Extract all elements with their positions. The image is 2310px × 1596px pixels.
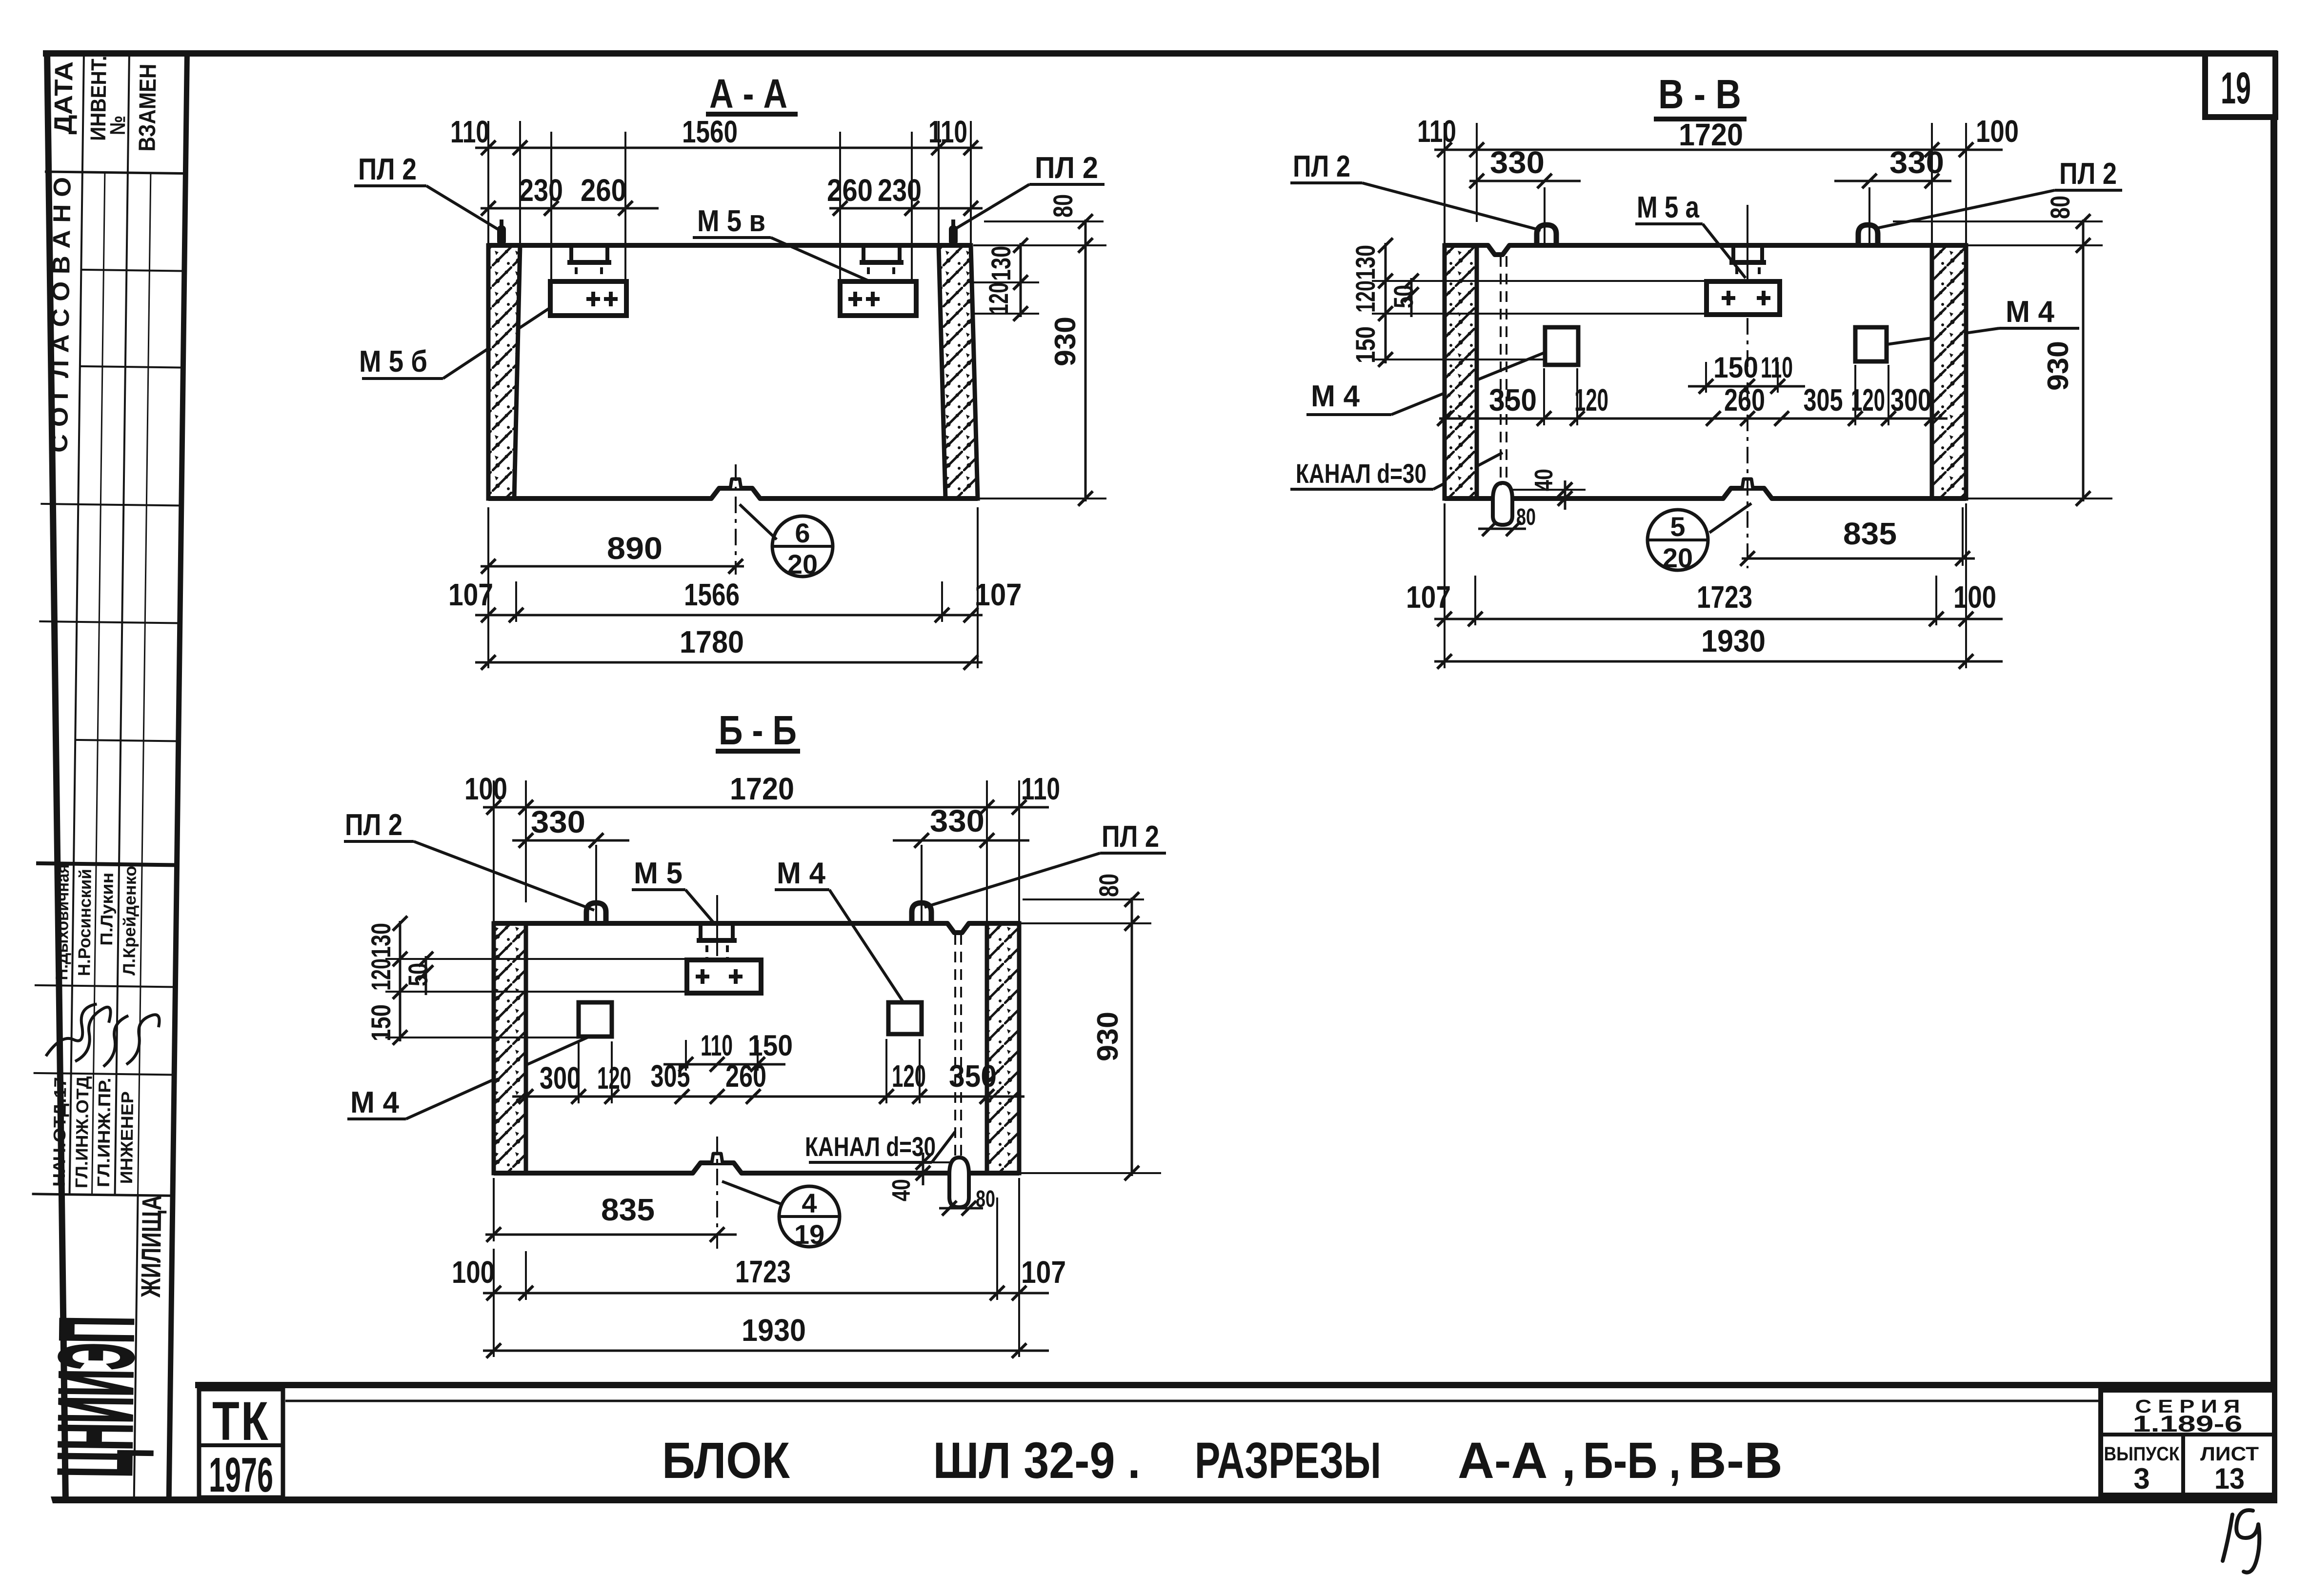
V-V block bottom edge with keyway notch <box>1445 488 1966 499</box>
B-B leader PL2 left <box>414 841 594 910</box>
svg-text:В - В: В - В <box>1658 71 1741 117</box>
B-B keyway stub <box>712 1154 723 1163</box>
svg-text:КАНАЛ d=30: КАНАЛ d=30 <box>1296 458 1426 489</box>
B-B detail callout circle 4/19 <box>779 1186 840 1247</box>
B-B leader M4 top <box>829 890 903 1001</box>
title block SERIYA cell <box>2101 1390 2274 1495</box>
V-V leader M4 right <box>1887 328 1999 344</box>
V-V leader KANAL <box>1433 453 1503 489</box>
left strip right border <box>166 53 190 1501</box>
title strip top line <box>195 1382 2270 1388</box>
svg-text:3: 3 <box>2133 1462 2149 1495</box>
svg-text:М 4: М 4 <box>777 857 825 890</box>
handwritten sheet number 19 <box>2223 1515 2232 1561</box>
svg-text:40: 40 <box>887 1179 916 1201</box>
svg-text:С О Г Л А С О В А Н О: С О Г Л А С О В А Н О <box>45 177 76 453</box>
svg-text:М 5: М 5 <box>634 857 683 890</box>
svg-text:110: 110 <box>1761 351 1793 384</box>
sheet frame top border <box>43 50 2277 57</box>
B-B dim 80 bottom <box>939 1207 983 1210</box>
A-A block bottom edge with keyway notch <box>488 488 978 499</box>
A-A block top edge <box>488 243 971 248</box>
B-B left level lines <box>385 958 687 960</box>
B-B anchor bracket M5 <box>699 925 703 940</box>
B-B loop ext lines <box>595 845 597 922</box>
section V-V title underline <box>1654 117 1747 121</box>
svg-text:М 4: М 4 <box>2006 295 2054 329</box>
svg-text:80: 80 <box>976 1186 995 1212</box>
svg-text:ПЛ 2: ПЛ 2 <box>358 153 417 186</box>
V-V dim 50 <box>1410 278 1413 317</box>
B-B dim 835 <box>493 1178 495 1241</box>
V-V dim row1 extension lines <box>1444 123 1446 245</box>
svg-text:1566: 1566 <box>684 577 740 612</box>
svg-text:1720: 1720 <box>730 771 794 806</box>
svg-text:Л.Крейденко: Л.Крейденко <box>120 866 140 976</box>
svg-text:110: 110 <box>1021 771 1060 806</box>
svg-text:305: 305 <box>651 1058 690 1094</box>
B-B right ext line 80 top <box>1023 898 1144 900</box>
V-V right concrete wall hatched <box>1932 245 1966 499</box>
svg-text:1720: 1720 <box>1679 117 1743 152</box>
V-V embedded square M4 right <box>1855 327 1887 361</box>
V-V dim row 107-1723-100 <box>1434 618 2003 620</box>
svg-text:5: 5 <box>1670 511 1685 542</box>
V-V vertical dim 80 930 <box>2082 219 2085 501</box>
B-B block top edge with channel notch <box>494 923 1019 933</box>
A-A bottom ext lines <box>487 507 489 668</box>
svg-text:ПЛ 2: ПЛ 2 <box>1035 151 1098 185</box>
svg-text:1976: 1976 <box>209 1448 273 1502</box>
svg-text:1.189-6: 1.189-6 <box>2133 1411 2243 1436</box>
A-A vertical dim 130 120 <box>1020 243 1022 317</box>
svg-text:130: 130 <box>1350 245 1381 280</box>
A-A detail callout circle 6/20 <box>772 516 833 577</box>
svg-text:930: 930 <box>1091 1012 1124 1061</box>
svg-text:1560: 1560 <box>682 114 738 149</box>
svg-text:20: 20 <box>787 549 818 579</box>
svg-text:50: 50 <box>402 963 433 986</box>
B-B dim 50 <box>425 956 427 995</box>
svg-text:А-А ,: А-А , <box>1458 1432 1576 1489</box>
svg-text:ГЛ.ИНЖ.ПР.: ГЛ.ИНЖ.ПР. <box>94 1077 115 1187</box>
svg-text:835: 835 <box>1843 516 1897 551</box>
svg-text:260: 260 <box>581 173 626 208</box>
svg-text:ШЛ 32-9 .: ШЛ 32-9 . <box>933 1432 1141 1489</box>
sheet frame right border <box>2270 50 2277 1503</box>
B-B channel dashed lines <box>954 934 956 1160</box>
svg-text:М 4: М 4 <box>350 1086 399 1119</box>
A-A right anchor bracket <box>862 247 865 262</box>
B-B bottom ext lines <box>525 1251 527 1300</box>
TK 1976 box <box>199 1389 283 1497</box>
A-A right ext line block top <box>973 244 1106 246</box>
svg-text:П.Лукин: П.Лукин <box>97 872 117 945</box>
svg-text:Б - Б: Б - Б <box>719 707 797 753</box>
V-V embedded plate M5a <box>1707 281 1780 315</box>
title strip inner thin line <box>285 1400 2101 1402</box>
A-A left concrete wall hatched <box>488 245 520 499</box>
page number box <box>2205 54 2275 117</box>
svg-text:1723: 1723 <box>735 1254 791 1289</box>
A-A keyway stub <box>730 479 741 488</box>
V-V leader PL2 right <box>1876 190 2055 228</box>
A-A dim row2 left line 230-260 <box>481 207 659 210</box>
svg-text:М 5 в: М 5 в <box>697 204 765 238</box>
V-V leader PL2 left <box>1362 183 1541 230</box>
B-B leader M4 left <box>406 1035 593 1119</box>
left strip column line 3 <box>92 173 105 1195</box>
svg-text:ДАТА: ДАТА <box>49 61 79 135</box>
svg-text:1723: 1723 <box>1697 579 1752 615</box>
B-B dim row A 110-150 <box>685 1040 687 1071</box>
svg-text:1930: 1930 <box>1701 623 1766 658</box>
svg-text:300: 300 <box>1890 382 1931 418</box>
V-V dim row1 line 110-1720-100 <box>1434 149 2003 151</box>
A-A right ext lines 130 120 <box>972 281 1039 283</box>
left strip line below signatures <box>34 1073 175 1075</box>
A-A dim row1 extension lines <box>487 121 489 245</box>
A-A dim row2 extension lines <box>550 132 552 279</box>
B-B leader M5 <box>685 890 714 923</box>
svg-text:120: 120 <box>1851 382 1885 418</box>
V-V keyway stub <box>1742 479 1753 488</box>
A-A vertical dim 80 930 <box>1085 219 1087 501</box>
A-A dim 890 line <box>481 565 744 568</box>
V-V block top edge with channel notch <box>1445 245 1966 255</box>
left strip row lines <box>81 270 184 271</box>
svg-text:ГЛ.ИНЖ.ОТД: ГЛ.ИНЖ.ОТД <box>72 1076 93 1189</box>
svg-text:50: 50 <box>1388 285 1419 308</box>
B-B embedded square M4 left <box>579 1002 612 1037</box>
A-A right ext line 80 top <box>984 220 1104 222</box>
B-B left concrete wall hatched <box>494 923 526 1173</box>
V-V bottom ext lines <box>1474 576 1476 625</box>
A-A leader PL2 right <box>956 184 1029 228</box>
svg-text:ИНЖЕНЕР: ИНЖЕНЕР <box>117 1091 137 1184</box>
svg-text:150: 150 <box>1350 326 1381 363</box>
svg-text:М 5 б: М 5 б <box>359 345 427 379</box>
V-V channel exit tab <box>1493 483 1512 525</box>
B-B left vertical dim 130 120 150 <box>399 921 402 1041</box>
svg-text:6: 6 <box>795 518 810 548</box>
B-B dim row1 extension lines <box>493 780 495 923</box>
A-A leader M5b <box>443 306 552 379</box>
V-V centre line upper <box>1747 205 1748 280</box>
V-V dim row A 150-110 <box>1705 362 1707 393</box>
svg-text:230: 230 <box>519 173 563 208</box>
V-V embedded square M4 left <box>1545 327 1578 365</box>
left strip logo column divider <box>134 1196 138 1498</box>
svg-text:ЖИЛИЩА: ЖИЛИЩА <box>135 1195 167 1298</box>
A-A right ext line bottom <box>973 498 1106 499</box>
A-A dim row 1780 <box>475 661 983 664</box>
svg-text:110: 110 <box>928 114 967 149</box>
svg-text:ТК: ТК <box>212 1391 270 1452</box>
sheet frame bottom border <box>51 1496 2277 1503</box>
left strip column line 1 <box>70 54 84 1195</box>
A-A left lifting loop PL2 <box>497 225 506 245</box>
svg-text:ПЛ 2: ПЛ 2 <box>2059 157 2117 191</box>
B-B leader to callout <box>722 1181 781 1204</box>
V-V leader to callout <box>1709 503 1751 533</box>
V-V leader M4 left <box>1391 350 1550 415</box>
svg-text:150: 150 <box>748 1029 793 1062</box>
svg-text:305: 305 <box>1804 382 1843 418</box>
A-A embedded plate M5v <box>840 281 916 316</box>
A-A right lifting loop PL2 <box>949 225 958 245</box>
left strip column line 2 <box>115 55 129 1195</box>
svg-text:100: 100 <box>464 771 507 806</box>
B-B dim 330 left <box>512 839 629 842</box>
B-B right concrete wall hatched <box>987 923 1019 1173</box>
svg-text:890: 890 <box>607 531 663 566</box>
left strip header row bottom line <box>45 172 186 174</box>
svg-text:40: 40 <box>1530 469 1558 491</box>
svg-text:19: 19 <box>794 1219 824 1250</box>
svg-text:80: 80 <box>1047 194 1078 218</box>
svg-text:120: 120 <box>1574 382 1608 418</box>
section A-A title underline <box>706 112 798 117</box>
B-B vertical dim 80 930 <box>1131 898 1133 1176</box>
svg-text:А - А: А - А <box>709 71 787 117</box>
svg-text:РАЗРЕЗЫ: РАЗРЕЗЫ <box>1195 1432 1381 1489</box>
A-A embedded plate M5b <box>550 281 626 316</box>
svg-text:1780: 1780 <box>680 624 744 659</box>
svg-text:230: 230 <box>878 173 922 208</box>
V-V right ext line block top <box>1968 244 2103 246</box>
svg-text:ПЛ 2: ПЛ 2 <box>345 808 402 842</box>
svg-text:В-В: В-В <box>1688 1432 1783 1489</box>
B-B embedded plate M5 <box>687 960 761 993</box>
svg-text:120: 120 <box>983 282 1014 315</box>
A-A dim row2 right line 260-230 <box>829 207 983 210</box>
svg-text:ВЫПУСК: ВЫПУСК <box>2104 1443 2180 1465</box>
V-V anchor pins <box>1735 267 1738 281</box>
svg-text:110: 110 <box>1417 114 1456 149</box>
svg-text:НАЧ.ОТД.17: НАЧ.ОТД.17 <box>50 1077 70 1187</box>
signature squiggles <box>46 1003 97 1057</box>
B-B centre line <box>716 1137 718 1249</box>
V-V dim 835 <box>1962 507 1964 566</box>
svg-text:100: 100 <box>452 1255 495 1290</box>
A-A left anchor bracket <box>569 247 573 262</box>
svg-text:№: № <box>106 116 130 136</box>
svg-text:107: 107 <box>975 577 1022 612</box>
V-V dim row B <box>1543 368 1545 425</box>
section B-B title underline <box>716 749 800 754</box>
A-A centre line <box>735 464 737 575</box>
V-V left concrete wall hatched <box>1445 245 1477 499</box>
svg-text:М 4: М 4 <box>1311 379 1360 413</box>
svg-text:80: 80 <box>1093 874 1124 897</box>
svg-text:835: 835 <box>601 1192 655 1227</box>
svg-text:120: 120 <box>365 958 396 991</box>
V-V leader M5a <box>1703 224 1746 278</box>
svg-text:150: 150 <box>365 1004 396 1041</box>
B-B anchor pins <box>705 945 708 958</box>
svg-text:350: 350 <box>1489 382 1537 418</box>
B-B centre line upper <box>716 895 718 956</box>
svg-text:330: 330 <box>531 804 585 839</box>
A-A right anchor pins <box>867 267 870 293</box>
svg-text:Н.Дыховичная: Н.Дыховичная <box>52 864 73 980</box>
A-A left anchor pins <box>575 267 578 293</box>
V-V dim 330 left <box>1469 180 1581 182</box>
A-A leader to callout <box>740 504 777 539</box>
left strip line below roles <box>32 1194 173 1196</box>
svg-text:БЛОК: БЛОК <box>662 1432 790 1489</box>
B-B channel exit tab <box>949 1157 969 1207</box>
A-A leader M5v <box>771 238 872 282</box>
svg-text:110: 110 <box>450 114 489 149</box>
svg-text:260: 260 <box>1724 382 1765 418</box>
svg-text:ПЛ 2: ПЛ 2 <box>1293 150 1350 183</box>
svg-text:107: 107 <box>448 577 493 612</box>
svg-text:80: 80 <box>1516 504 1536 530</box>
A-A dim row1 line 110-1560-110 <box>475 147 983 149</box>
V-V anchor bracket M5a <box>1731 247 1735 262</box>
A-A right concrete wall hatched <box>939 245 978 499</box>
V-V right lifting loop <box>1858 225 1878 245</box>
B-B dim row 100-1723-107 <box>483 1292 1049 1295</box>
B-B right ext line block top <box>1021 922 1151 924</box>
svg-text:Б-Б ,: Б-Б , <box>1583 1432 1681 1489</box>
svg-text:80: 80 <box>2045 196 2075 219</box>
svg-text:260: 260 <box>827 173 873 208</box>
V-V dim row 1930 <box>1434 660 2003 663</box>
B-B dim 40 <box>907 1161 951 1163</box>
B-B dim row B <box>578 1041 580 1103</box>
svg-text:330: 330 <box>1889 145 1944 180</box>
svg-text:4: 4 <box>802 1188 817 1218</box>
svg-text:130: 130 <box>985 246 1016 281</box>
svg-text:100: 100 <box>1976 114 2019 149</box>
V-V dim 330 right <box>1834 180 1951 182</box>
V-V loop ext lines <box>1544 187 1546 244</box>
svg-text:260: 260 <box>725 1058 766 1094</box>
sheet frame left border (slanted) <box>44 50 69 1503</box>
V-V right ext line 80 top <box>1893 220 2103 222</box>
V-V right ext line bottom <box>1968 498 2112 499</box>
A-A leader PL2 left <box>426 186 500 230</box>
svg-text:13: 13 <box>2214 1462 2245 1495</box>
svg-text:19: 19 <box>2221 63 2251 113</box>
svg-text:120: 120 <box>1350 280 1381 313</box>
svg-text:330: 330 <box>930 803 984 838</box>
svg-text:330: 330 <box>1490 145 1545 180</box>
svg-text:350: 350 <box>949 1058 997 1094</box>
B-B dim row 1930 <box>483 1350 1049 1352</box>
B-B block bottom edge with keyway notch <box>494 1163 1019 1173</box>
svg-text:130: 130 <box>365 923 396 958</box>
V-V channel dashed lines <box>1500 256 1502 485</box>
svg-text:20: 20 <box>1663 542 1693 573</box>
svg-text:1930: 1930 <box>742 1313 806 1348</box>
svg-text:107: 107 <box>1406 579 1451 615</box>
svg-text:120: 120 <box>892 1058 926 1094</box>
svg-text:100: 100 <box>1953 579 1996 615</box>
V-V dim 80 bottom <box>1478 528 1526 530</box>
svg-text:110: 110 <box>701 1029 733 1062</box>
V-V left level lines <box>1372 280 1707 282</box>
V-V dim 40 <box>1511 489 1586 491</box>
svg-text:300: 300 <box>540 1060 581 1096</box>
B-B leader PL2 right <box>924 853 1100 907</box>
svg-text:120: 120 <box>597 1060 631 1096</box>
svg-text:ПЛ 2: ПЛ 2 <box>1102 820 1159 854</box>
B-B embedded square M4 right <box>888 1002 922 1034</box>
svg-text:КАНАЛ d=30: КАНАЛ d=30 <box>805 1131 936 1162</box>
svg-text:ВЗАМЕН: ВЗАМЕН <box>134 63 161 152</box>
B-B right lifting loop <box>912 903 931 923</box>
svg-text:150: 150 <box>1713 351 1758 384</box>
B-B left lifting loop <box>586 903 606 923</box>
svg-text:ЦНИИЭП: ЦНИИЭП <box>36 1316 155 1478</box>
B-B dim row1 line 100-1720-110 <box>483 806 1049 809</box>
B-B leader KANAL <box>932 1132 955 1162</box>
left strip column line 4 <box>138 173 151 1196</box>
svg-text:930: 930 <box>1049 317 1082 366</box>
V-V left lifting loop <box>1537 225 1556 245</box>
B-B dim 330 right <box>893 839 1029 842</box>
svg-text:М 5 а: М 5 а <box>1637 191 1699 224</box>
left strip line below names <box>35 985 176 987</box>
left strip thick divider above names <box>36 863 177 865</box>
A-A dim row 107-1566-107 <box>475 614 983 617</box>
V-V centre line <box>1747 318 1748 568</box>
svg-text:ЛИСТ: ЛИСТ <box>2200 1443 2259 1465</box>
svg-text:107: 107 <box>1021 1255 1066 1290</box>
svg-text:930: 930 <box>2042 341 2074 391</box>
V-V detail callout circle 5/20 <box>1647 510 1708 570</box>
svg-text:Н.Росинский: Н.Росинский <box>75 869 95 976</box>
B-B right ext line bottom <box>1021 1172 1161 1174</box>
V-V left vertical dim 130 120 150 <box>1385 243 1387 363</box>
